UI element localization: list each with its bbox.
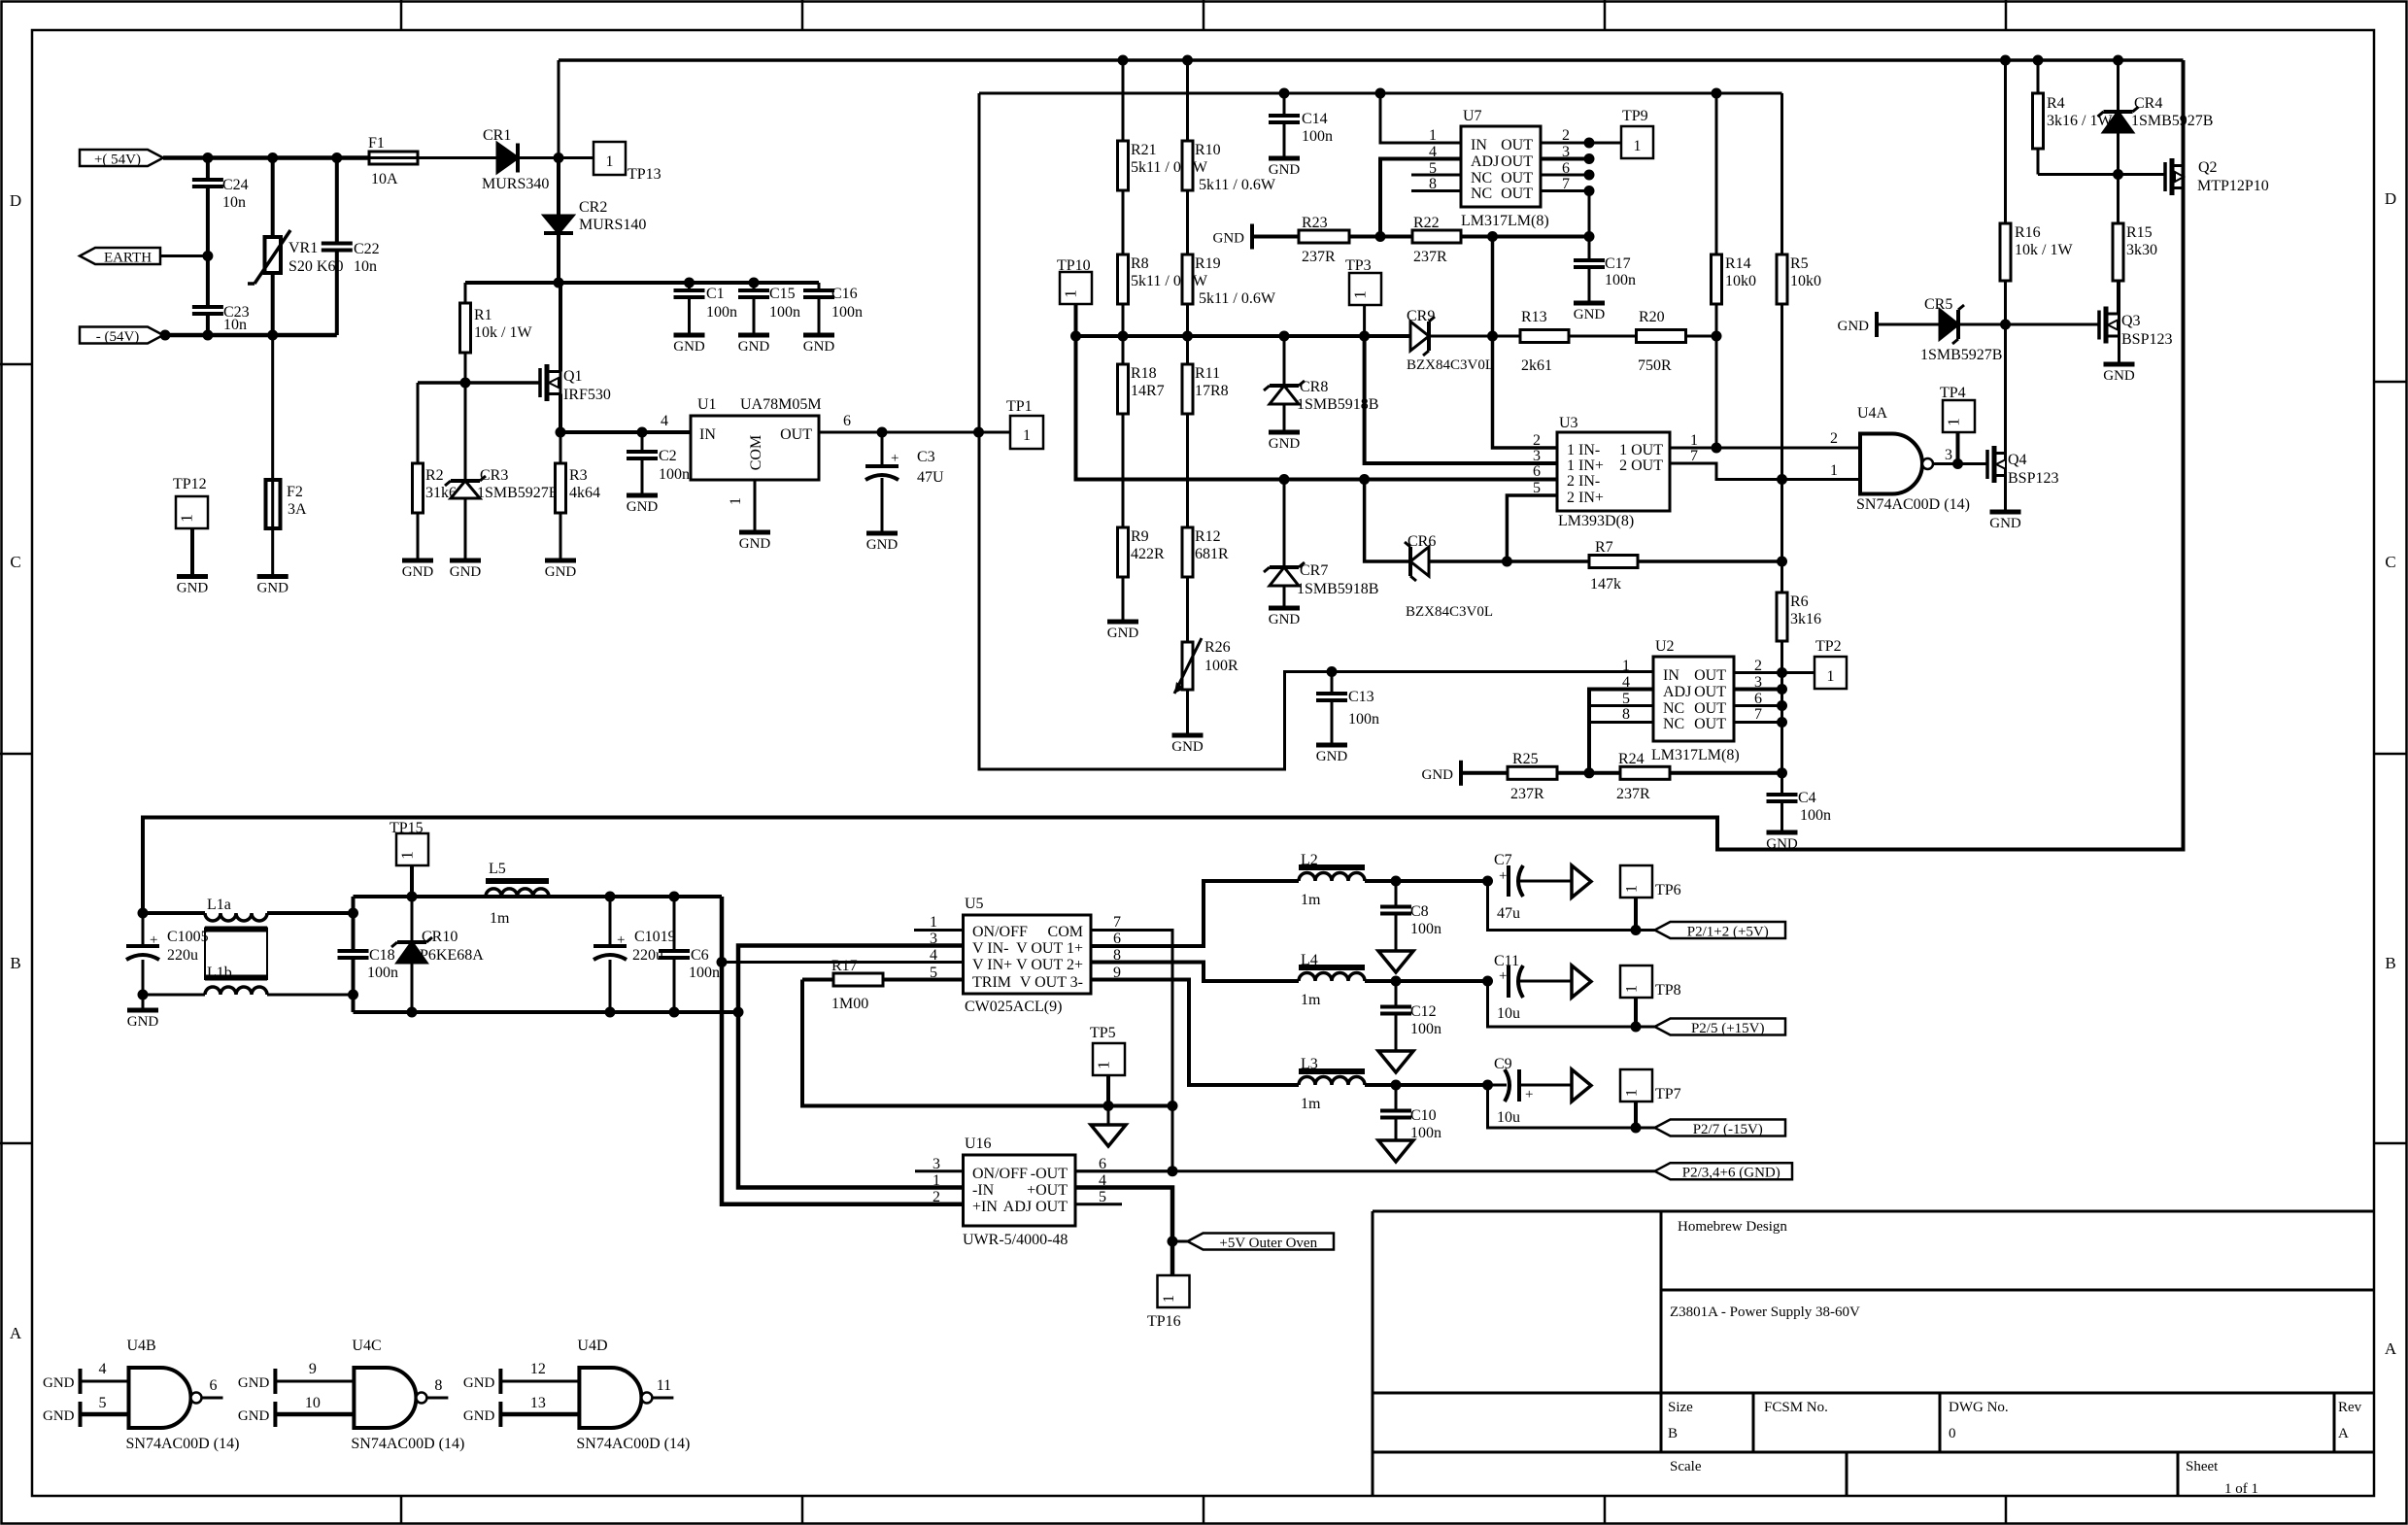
ground under CR3 xyxy=(450,559,481,563)
logic gate U4B SN74AC00D xyxy=(129,1368,191,1428)
trimmer R26 xyxy=(1182,642,1193,690)
wire CR5 to Q3 gate xyxy=(1958,323,2099,326)
ground under CR8 xyxy=(1269,430,1300,435)
svg-text:237R: 237R xyxy=(1413,249,1447,265)
svg-text:L1b: L1b xyxy=(207,965,232,981)
wire V IN+ feed to U5 and +IN to U16 xyxy=(722,897,964,1204)
svg-text:C1: C1 xyxy=(706,286,725,302)
svg-text:3: 3 xyxy=(1533,448,1541,464)
wire U1 COM pin 1 xyxy=(754,480,757,532)
svg-text:V OUT 1+: V OUT 1+ xyxy=(1016,940,1083,957)
wire U1 OUT to TP1 xyxy=(819,431,1010,434)
diode CR2 MURS140 xyxy=(557,158,560,217)
svg-text:NC: NC xyxy=(1663,716,1684,732)
svg-text:C22: C22 xyxy=(354,241,380,257)
wire U7 ADJ down to R22 node xyxy=(1380,159,1461,237)
ground flag U4D input A xyxy=(498,1369,502,1394)
wire TP10 down to 2IN- row xyxy=(1076,304,1558,480)
svg-text:237R: 237R xyxy=(1616,786,1650,802)
svg-text:GND: GND xyxy=(177,581,209,596)
svg-text:C18: C18 xyxy=(369,947,395,964)
svg-text:1: 1 xyxy=(930,914,937,931)
svg-text:GND: GND xyxy=(866,537,899,553)
ground triangle C10 xyxy=(1378,1140,1413,1162)
test point TP8 xyxy=(1620,966,1652,998)
node P2/1+2 +5V flag xyxy=(1655,922,1786,938)
node +(54V) input flag xyxy=(80,150,163,166)
wire R4/CR4 to Q2 gate xyxy=(2038,173,2165,176)
svg-text:P2/7 (-15V): P2/7 (-15V) xyxy=(1693,1122,1763,1137)
svg-text:GND: GND xyxy=(738,339,770,355)
svg-text:C1019: C1019 xyxy=(634,929,676,945)
svg-text:U2: U2 xyxy=(1655,638,1675,655)
svg-text:MTP12P10: MTP12P10 xyxy=(2197,178,2269,194)
wire U3 pin1 output to U4A input 2 xyxy=(1670,447,1860,450)
svg-text:100n: 100n xyxy=(367,965,398,981)
svg-text:TP16: TP16 xyxy=(1147,1313,1181,1330)
svg-text:8: 8 xyxy=(1622,706,1630,723)
svg-text:Homebrew Design: Homebrew Design xyxy=(1678,1219,1787,1235)
svg-text:750R: 750R xyxy=(1638,357,1672,374)
svg-text:C6: C6 xyxy=(691,947,709,964)
svg-text:R6: R6 xyxy=(1790,593,1809,610)
svg-text:1: 1 xyxy=(1827,668,1835,685)
resistor R1 xyxy=(464,283,467,303)
wire U7 OUT pins to TP9 column xyxy=(1541,142,1589,145)
svg-text:R19: R19 xyxy=(1195,255,1221,272)
wire R13 to R20 xyxy=(1569,335,1637,338)
svg-text:220u: 220u xyxy=(167,947,198,964)
svg-text:4: 4 xyxy=(99,1361,107,1377)
svg-text:1 of 1: 1 of 1 xyxy=(2224,1481,2258,1497)
wire inputs of U4B xyxy=(81,1380,129,1383)
svg-text:IN: IN xyxy=(1471,137,1487,153)
svg-text:5k11 / 0.6W: 5k11 / 0.6W xyxy=(1199,177,1276,193)
wire U5 VOUT2+ to L4 xyxy=(1091,963,1299,982)
capacitor C22 xyxy=(335,158,339,244)
svg-text:F1: F1 xyxy=(368,135,385,152)
wire R8 to node xyxy=(1122,304,1125,336)
svg-text:+IN: +IN xyxy=(972,1199,998,1215)
svg-text:2: 2 xyxy=(1533,432,1541,449)
ground under C16 xyxy=(803,333,834,338)
svg-text:C10: C10 xyxy=(1410,1107,1437,1124)
resistor R9 xyxy=(1118,527,1129,577)
wire R21-R8 xyxy=(1122,190,1125,254)
svg-text:L5: L5 xyxy=(489,861,506,877)
wire TP9 column down to C17 xyxy=(1588,191,1591,261)
wire L2 to C7 node xyxy=(1365,879,1488,883)
svg-text:GND: GND xyxy=(1989,516,2021,531)
svg-text:7: 7 xyxy=(1690,448,1698,464)
svg-text:1SMB5927B: 1SMB5927B xyxy=(477,485,559,501)
wire R7 to R6 column xyxy=(1638,559,1782,563)
svg-text:1: 1 xyxy=(1634,138,1642,154)
svg-text:P6KE68A: P6KE68A xyxy=(420,947,484,964)
capacitor C12 xyxy=(1395,981,1398,1007)
svg-text:1m: 1m xyxy=(1301,1096,1321,1112)
svg-text:5: 5 xyxy=(1533,480,1541,496)
svg-text:UA78M05M: UA78M05M xyxy=(740,396,822,413)
svg-text:IRF530: IRF530 xyxy=(563,387,611,403)
svg-text:R2: R2 xyxy=(425,467,444,484)
svg-text:Q2: Q2 xyxy=(2198,159,2218,176)
wire Q1 source to U1 IN xyxy=(560,430,691,434)
svg-text:100n: 100n xyxy=(1605,272,1636,288)
wire R5 column down xyxy=(1781,304,1783,593)
svg-text:ON/OFF: ON/OFF xyxy=(972,924,1028,940)
svg-text:5k11 / 0.6W: 5k11 / 0.6W xyxy=(1131,159,1208,176)
wire R23 to R22 xyxy=(1349,235,1412,239)
wire second bus y=96 xyxy=(979,92,1782,95)
svg-text:+: + xyxy=(1525,1087,1533,1102)
svg-text:1 IN+: 1 IN+ xyxy=(1567,457,1604,474)
svg-text:GND: GND xyxy=(256,581,288,596)
svg-text:R15: R15 xyxy=(2126,224,2153,241)
svg-text:1 OUT: 1 OUT xyxy=(1619,442,1663,458)
resistor R4 xyxy=(2037,60,2040,93)
svg-text:1: 1 xyxy=(1161,1295,1177,1303)
zener CR6 BZX84C3V0L xyxy=(1410,547,1429,576)
wire R24 to C4 column xyxy=(1670,771,1782,775)
wire plus rail y=923 xyxy=(354,895,723,898)
svg-text:5: 5 xyxy=(99,1395,107,1411)
svg-text:C2: C2 xyxy=(659,448,677,464)
svg-text:R7: R7 xyxy=(1595,539,1613,556)
svg-text:Z3801A - Power Supply 38-60V: Z3801A - Power Supply 38-60V xyxy=(1670,1305,1860,1320)
wire R22 to C17 column xyxy=(1461,235,1589,239)
wire -54V xyxy=(163,333,337,338)
wire R22 node down to comparator 1IN- and U3 pin2 xyxy=(1493,237,1558,449)
capacitor C10 xyxy=(1395,1085,1398,1111)
svg-text:GND: GND xyxy=(1269,612,1301,627)
resistor R12 xyxy=(1182,527,1193,577)
svg-text:10k0: 10k0 xyxy=(1725,273,1756,289)
svg-text:TP6: TP6 xyxy=(1655,882,1681,898)
wire R19 to node xyxy=(1186,304,1189,336)
wire U5 pin4 xyxy=(722,961,964,964)
svg-text:11: 11 xyxy=(657,1377,671,1394)
svg-text:CR9: CR9 xyxy=(1407,308,1435,324)
resistor R7 xyxy=(1589,556,1638,568)
svg-text:+5V Outer Oven: +5V Outer Oven xyxy=(1219,1236,1317,1251)
svg-text:2: 2 xyxy=(1830,430,1838,447)
wire R6 to U2 outputs xyxy=(1781,641,1783,795)
svg-text:R5: R5 xyxy=(1790,255,1809,272)
svg-text:2 IN-: 2 IN- xyxy=(1567,473,1600,490)
svg-text:C12: C12 xyxy=(1410,1003,1437,1020)
svg-text:TP4: TP4 xyxy=(1940,385,1966,401)
wire R9 to ground xyxy=(1122,577,1125,622)
wire U5 VOUT1+ to L2 xyxy=(1091,881,1299,946)
ground under R3 xyxy=(545,559,576,563)
svg-text:100n: 100n xyxy=(1800,807,1831,824)
svg-text:100n: 100n xyxy=(689,965,720,981)
svg-text:R21: R21 xyxy=(1131,142,1157,158)
svg-text:1m: 1m xyxy=(1301,892,1321,908)
svg-text:P2/3,4+6 (GND): P2/3,4+6 (GND) xyxy=(1682,1166,1781,1181)
svg-text:+: + xyxy=(1499,868,1507,884)
svg-text:9: 9 xyxy=(309,1361,317,1377)
svg-text:U3: U3 xyxy=(1559,415,1578,431)
capacitor C1005 220u xyxy=(142,913,145,946)
svg-text:OUT: OUT xyxy=(1694,700,1726,717)
ground flag U4B input B xyxy=(79,1402,83,1427)
svg-text:5k11 / 0.6W: 5k11 / 0.6W xyxy=(1199,290,1276,307)
regulator U7 LM317LM xyxy=(1461,126,1541,207)
svg-text:VR1: VR1 xyxy=(288,240,318,256)
svg-text:GND: GND xyxy=(450,564,482,580)
ground under C1 xyxy=(674,333,705,338)
svg-text:R16: R16 xyxy=(2015,224,2041,241)
svg-text:GND: GND xyxy=(1171,739,1204,755)
svg-text:2 OUT: 2 OUT xyxy=(1619,457,1663,474)
svg-text:C: C xyxy=(2385,553,2395,571)
svg-text:1: 1 xyxy=(606,153,614,170)
svg-text:GND: GND xyxy=(238,1408,270,1424)
svg-text:10A: 10A xyxy=(371,171,398,187)
svg-text:+( 54V): +( 54V) xyxy=(94,152,141,168)
capacitor C17 xyxy=(1574,258,1605,262)
ground under R26 xyxy=(1172,733,1204,738)
ground under Q3 xyxy=(2118,336,2120,364)
ground under C15 xyxy=(738,333,769,338)
wire U16 ON/OFF stub xyxy=(915,1169,964,1172)
test point TP7 xyxy=(1620,1069,1652,1101)
svg-text:U4A: U4A xyxy=(1857,405,1888,422)
svg-text:R4: R4 xyxy=(2047,95,2065,112)
svg-text:A: A xyxy=(10,1324,22,1342)
svg-text:F2: F2 xyxy=(287,484,303,500)
svg-text:B: B xyxy=(10,954,20,972)
wire R12-R26 xyxy=(1186,577,1189,642)
svg-text:Rev: Rev xyxy=(2338,1400,2362,1415)
svg-text:1: 1 xyxy=(1624,985,1641,993)
ground under R9 xyxy=(1107,620,1138,625)
svg-text:A: A xyxy=(2338,1426,2349,1441)
svg-text:1: 1 xyxy=(1945,418,1963,426)
wire comparator ref row y=346 xyxy=(1074,334,1410,338)
svg-text:B: B xyxy=(1668,1426,1678,1441)
svg-text:C17: C17 xyxy=(1605,255,1631,272)
svg-text:100n: 100n xyxy=(706,304,737,321)
svg-text:L1a: L1a xyxy=(207,897,231,913)
svg-text:GND: GND xyxy=(545,564,577,580)
svg-text:R14: R14 xyxy=(1725,255,1751,272)
svg-text:V OUT 3-: V OUT 3- xyxy=(1020,974,1083,991)
svg-text:Scale: Scale xyxy=(1670,1459,1702,1474)
wire GND to R23 xyxy=(1252,235,1299,239)
varistor VR1 xyxy=(271,158,275,238)
svg-text:GND: GND xyxy=(1269,162,1301,178)
ground flag R25 xyxy=(1459,761,1463,786)
svg-text:100R: 100R xyxy=(1204,658,1238,674)
zener CR4 1SMB5927B xyxy=(2117,60,2120,110)
svg-text:EARTH: EARTH xyxy=(104,251,152,266)
svg-text:5k11 / 0.6W: 5k11 / 0.6W xyxy=(1131,273,1208,289)
svg-text:GND: GND xyxy=(1316,749,1348,764)
op-amp comparator U3 LM393D xyxy=(1557,432,1670,511)
svg-text:R25: R25 xyxy=(1512,751,1539,767)
wire output of U4C xyxy=(426,1397,448,1400)
wire right vertical raw supply xyxy=(143,60,2184,913)
converter U16 UWR-5/4000-48 xyxy=(964,1155,1076,1226)
svg-text:1: 1 xyxy=(1095,1061,1113,1069)
svg-text:1: 1 xyxy=(728,497,744,505)
svg-text:CR5: CR5 xyxy=(1924,296,1952,313)
svg-text:V IN+: V IN+ xyxy=(972,957,1012,973)
ground flag CR5 xyxy=(1875,312,1879,337)
svg-text:681R: 681R xyxy=(1195,546,1229,562)
svg-text:3A: 3A xyxy=(288,501,307,518)
svg-text:2k61: 2k61 xyxy=(1521,357,1552,374)
svg-text:147k: 147k xyxy=(1590,576,1621,593)
svg-text:C15: C15 xyxy=(769,286,796,302)
node -(54V) input flag xyxy=(80,327,163,344)
svg-text:3k16: 3k16 xyxy=(1790,611,1821,627)
wire R10-R19 xyxy=(1186,190,1189,254)
svg-text:C9: C9 xyxy=(1494,1056,1512,1072)
svg-text:R3: R3 xyxy=(569,467,588,484)
svg-text:100n: 100n xyxy=(1410,921,1441,937)
ground under C17 xyxy=(1574,301,1605,306)
svg-text:C4: C4 xyxy=(1798,790,1816,806)
svg-text:R18: R18 xyxy=(1131,365,1157,382)
test point TP9 xyxy=(1589,142,1621,145)
svg-text:TP1: TP1 xyxy=(1006,398,1033,415)
svg-text:GND: GND xyxy=(1213,231,1245,247)
svg-text:SN74AC00D (14): SN74AC00D (14) xyxy=(1856,496,1970,513)
svg-text:V IN-: V IN- xyxy=(972,940,1008,957)
wire GND row to P2 flag xyxy=(1075,1169,1655,1172)
capacitor C6 xyxy=(673,897,676,951)
svg-text:TP3: TP3 xyxy=(1345,257,1372,274)
svg-text:D: D xyxy=(10,191,21,210)
wire output of U4B xyxy=(202,1397,223,1400)
svg-text:U5: U5 xyxy=(965,896,984,912)
capacitor C14 xyxy=(1283,93,1286,116)
svg-text:CR7: CR7 xyxy=(1300,562,1328,579)
svg-text:A: A xyxy=(2385,1339,2397,1358)
resistor R22 xyxy=(1412,230,1461,243)
svg-text:47U: 47U xyxy=(917,469,944,486)
svg-text:1: 1 xyxy=(1062,289,1080,298)
ground under F2 xyxy=(257,574,288,579)
ground triangle C8 xyxy=(1378,951,1413,972)
svg-text:MURS140: MURS140 xyxy=(579,217,646,233)
wire R11-R12 xyxy=(1186,414,1189,527)
transistor Q4 BSP123 xyxy=(1985,450,1989,479)
svg-text:IN: IN xyxy=(699,426,716,443)
svg-text:10k / 1W: 10k / 1W xyxy=(2015,242,2073,258)
ground flag U4B input A xyxy=(79,1369,83,1394)
svg-text:GND: GND xyxy=(803,339,835,355)
transistor Q1 IRF530 xyxy=(538,368,542,397)
svg-text:CR10: CR10 xyxy=(422,929,458,945)
svg-text:10n: 10n xyxy=(223,317,247,333)
svg-text:R26: R26 xyxy=(1204,639,1231,656)
ground under C3 xyxy=(866,531,898,536)
svg-text:LM393D(8): LM393D(8) xyxy=(1558,513,1634,529)
svg-text:CR6: CR6 xyxy=(1407,533,1436,550)
svg-text:SN74AC00D (14): SN74AC00D (14) xyxy=(126,1436,240,1452)
svg-text:100n: 100n xyxy=(659,466,690,483)
svg-text:3k16 / 1W: 3k16 / 1W xyxy=(2047,113,2113,129)
wire U5 VOUT3- to L3 xyxy=(1091,980,1299,1086)
node EARTH flag xyxy=(80,248,160,264)
resistor R21 xyxy=(1122,60,1125,141)
svg-text:U4D: U4D xyxy=(577,1338,607,1354)
svg-text:B: B xyxy=(2385,954,2395,972)
ground flag U4C input B xyxy=(273,1402,277,1427)
svg-text:100n: 100n xyxy=(1302,128,1333,145)
svg-text:100n: 100n xyxy=(769,304,800,321)
ground flag U4D input B xyxy=(498,1402,502,1427)
ground triangle C12 xyxy=(1378,1051,1413,1072)
capacitor C8 xyxy=(1395,881,1398,907)
svg-text:GND: GND xyxy=(1107,626,1139,641)
resistor R5 xyxy=(1781,93,1783,254)
svg-text:1m: 1m xyxy=(1301,992,1321,1008)
resistor R10 xyxy=(1186,60,1189,141)
svg-text:3: 3 xyxy=(1945,447,1952,463)
ground triangle TP5 xyxy=(1107,1106,1110,1126)
svg-text:1: 1 xyxy=(933,1172,940,1189)
svg-text:4: 4 xyxy=(661,413,668,429)
wire TRIM net down to TP5 row xyxy=(802,980,1172,1106)
svg-text:OUT: OUT xyxy=(1694,667,1726,684)
svg-text:GND: GND xyxy=(463,1408,495,1424)
svg-text:GND: GND xyxy=(1574,307,1606,322)
fuse F1 xyxy=(369,152,418,164)
svg-text:SN74AC00D (14): SN74AC00D (14) xyxy=(351,1436,464,1452)
svg-text:R20: R20 xyxy=(1639,309,1665,325)
svg-text:237R: 237R xyxy=(1510,786,1544,802)
svg-text:U4B: U4B xyxy=(127,1338,156,1354)
wire GND to R25 xyxy=(1461,771,1508,775)
svg-text:2: 2 xyxy=(933,1189,940,1205)
test point TP2 xyxy=(1782,671,1815,674)
wire minus rail y=1042 xyxy=(354,1010,739,1014)
svg-text:14R7: 14R7 xyxy=(1131,383,1165,399)
capacitor C18 xyxy=(338,949,369,953)
svg-text:TP8: TP8 xyxy=(1655,982,1681,999)
zener CR10 P6KE68A xyxy=(411,897,414,940)
wire U16 ADJ OUT stub xyxy=(1075,1203,1122,1205)
svg-text:SN74AC00D (14): SN74AC00D (14) xyxy=(576,1436,690,1452)
svg-text:ON/OFF: ON/OFF xyxy=(972,1166,1028,1182)
svg-text:R1: R1 xyxy=(474,307,492,323)
wire U2 ADJ to R24/R25 node xyxy=(1589,690,1653,773)
svg-text:BSP123: BSP123 xyxy=(2008,470,2058,487)
wire top bus xyxy=(559,58,2184,62)
wire U4A output to Q4 gate xyxy=(1933,462,1987,465)
ground under C1005 xyxy=(142,995,145,1010)
wire gate of Q1 xyxy=(418,381,540,385)
svg-text:R10: R10 xyxy=(1195,142,1221,158)
capacitor C15 xyxy=(753,283,756,290)
svg-text:10k0: 10k0 xyxy=(1790,273,1821,289)
wire U2 OUT pins to column xyxy=(1734,671,1782,674)
wire CR1 cathode to TP13 xyxy=(518,156,594,159)
svg-text:0: 0 xyxy=(1949,1426,1956,1441)
fuse F2 xyxy=(271,335,274,480)
svg-text:U7: U7 xyxy=(1463,108,1482,124)
wire CR9 to R13 xyxy=(1429,335,1525,338)
svg-text:R13: R13 xyxy=(1521,309,1547,325)
wire CR6 to R7 xyxy=(1429,559,1589,563)
resistor R3 xyxy=(560,432,562,463)
